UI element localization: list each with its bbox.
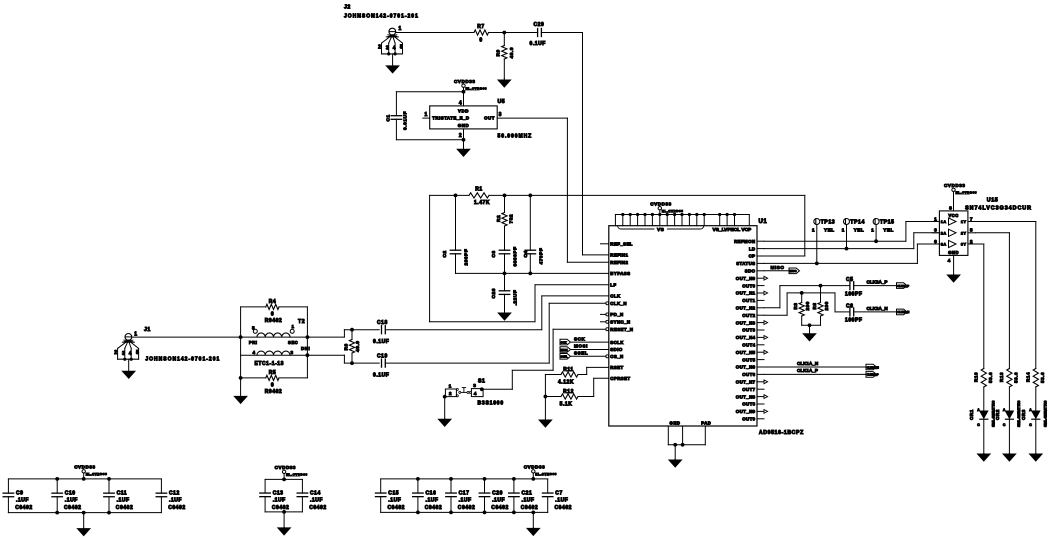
wire SSEL to CS_N <box>572 355 607 357</box>
svg-text:NL.CVDD33: NL.CVDD33 <box>86 472 108 476</box>
wire loop filter bottom rail to BYPASS <box>456 272 609 274</box>
power CVDD33 above U1 <box>658 207 661 210</box>
ground below bank <box>532 512 534 528</box>
svg-text:0.1UF: 0.1UF <box>373 339 389 345</box>
svg-text:C0402: C0402 <box>521 505 538 511</box>
capacitor C4 470PF <box>529 195 531 250</box>
svg-text:50.000MHZ: 50.000MHZ <box>498 134 533 140</box>
svg-text:53.6: 53.6 <box>1014 372 1019 383</box>
svg-text:.1UF: .1UF <box>16 498 29 504</box>
svg-text:C13: C13 <box>273 490 284 496</box>
svg-text:SYNC_N: SYNC_N <box>610 320 630 325</box>
pin U1 OUT4 <box>757 344 764 346</box>
wire LD to U15 2A <box>764 248 914 250</box>
node junction U5 VDD rail <box>462 90 466 94</box>
wire CR1 to ground <box>983 419 985 453</box>
svg-text:CVDD33: CVDD33 <box>275 465 296 470</box>
resistor R8 200 <box>820 286 822 303</box>
svg-text:OUT8: OUT8 <box>742 402 755 407</box>
svg-text:JOHNSON142-0701-201: JOHNSON142-0701-201 <box>145 356 220 362</box>
svg-text:C4: C4 <box>523 250 529 257</box>
wire C18 to CLK <box>385 329 542 331</box>
ground below U5 <box>463 140 465 150</box>
pin U1 SYNC_N <box>601 321 607 323</box>
oscillator U5 50.000MHZ <box>430 106 498 129</box>
svg-text:.1UF: .1UF <box>169 498 182 504</box>
diode CR2 SML-310MTT86 <box>1005 411 1013 418</box>
svg-text:OUT9: OUT9 <box>742 417 755 422</box>
connector J1 JOHNSON142-0701-201 <box>125 334 132 341</box>
svg-text:LF: LF <box>610 283 616 288</box>
svg-text:4: 4 <box>474 391 477 397</box>
node junction T2 right primary <box>306 335 310 339</box>
svg-text:OUT4: OUT4 <box>742 343 755 348</box>
svg-text:NL.CVDD33: NL.CVDD33 <box>286 472 308 476</box>
node junction R6 bottom <box>350 361 354 365</box>
svg-text:OUT_N8: OUT_N8 <box>736 394 756 399</box>
svg-text:R4: R4 <box>269 299 277 305</box>
svg-text:BYPASS: BYPASS <box>610 271 630 276</box>
capacitor C20 .1UF C0402 <box>484 479 486 493</box>
svg-text:1: 1 <box>871 228 874 233</box>
svg-text:MOSI: MOSI <box>561 348 568 352</box>
resistor R10 53.6 <box>981 369 986 388</box>
svg-text:0.01UF: 0.01UF <box>403 111 409 130</box>
pin U1 OUT_N5 <box>757 351 764 353</box>
pins U1 top VS pins <box>622 215 624 226</box>
svg-text:NL.CVDD33: NL.CVDD33 <box>662 209 684 213</box>
svg-text:C15: C15 <box>388 490 399 496</box>
svg-text:1: 1 <box>812 228 815 233</box>
wire CR3 to ground <box>1035 419 1037 453</box>
capacitor C6 100PF <box>849 308 851 316</box>
ground below bank <box>83 513 85 529</box>
svg-text:100PF: 100PF <box>845 291 862 297</box>
svg-text:100PF: 100PF <box>845 318 862 324</box>
svg-text:6800PF: 6800PF <box>513 246 519 266</box>
pin U1 OUT9 <box>757 418 764 420</box>
svg-text:5: 5 <box>970 228 973 234</box>
svg-text:A: A <box>977 408 980 412</box>
svg-text:CVDD33: CVDD33 <box>944 183 965 188</box>
wire C5 to CLK2A_P port <box>854 285 897 287</box>
svg-text:PAD: PAD <box>701 420 711 425</box>
resistor R9 49.9 <box>503 33 505 46</box>
wire CR2 to ground <box>1008 419 1010 453</box>
node junction bank ground <box>531 511 535 515</box>
svg-text:200: 200 <box>824 301 829 310</box>
svg-text:2: 2 <box>970 239 973 245</box>
svg-text:R13: R13 <box>999 372 1004 382</box>
wire T2 primary out jog <box>307 336 344 338</box>
testpoint TP15 YEL <box>873 219 879 225</box>
svg-text:A: A <box>1029 408 1032 412</box>
wire R11 to RSET <box>578 374 587 376</box>
wire T2 right vertical <box>306 307 308 378</box>
svg-text:GND: GND <box>670 420 681 425</box>
capacitor C15 .1UF C0402 <box>380 479 382 493</box>
resistor R4 0 R0402 <box>241 306 266 308</box>
buffer U15 gate 2A-2Y <box>949 229 957 236</box>
wire R12 to CPRSET <box>578 396 594 398</box>
svg-text:U5: U5 <box>498 99 506 105</box>
node junction C17 rails <box>449 477 453 481</box>
node junction R12 left <box>544 395 548 399</box>
resistor R2 732 <box>502 213 507 227</box>
svg-text:2: 2 <box>114 350 117 356</box>
svg-text:TP15: TP15 <box>880 219 895 225</box>
svg-text:OUT_N4: OUT_N4 <box>736 335 756 340</box>
svg-text:OUT3: OUT3 <box>742 328 755 333</box>
svg-text:STATUS: STATUS <box>736 261 755 266</box>
resistor R14 53.6 <box>1033 369 1038 388</box>
capacitor C12 .1UF C0402 <box>160 479 162 493</box>
svg-text:C10: C10 <box>65 491 76 497</box>
svg-text:MOSI: MOSI <box>574 344 588 349</box>
svg-text:C1: C1 <box>386 114 392 121</box>
svg-text:7: 7 <box>970 216 973 222</box>
wire J2 pin1 to R7 <box>396 32 474 34</box>
svg-text:CLK2A_P: CLK2A_P <box>897 284 909 288</box>
svg-text:CVDD33: CVDD33 <box>524 465 545 470</box>
svg-text:53.6: 53.6 <box>1040 372 1045 383</box>
node junction S1 pin3 <box>480 387 484 391</box>
node junction TP15 on REFMON <box>874 239 878 243</box>
svg-text:REF_SEL: REF_SEL <box>610 242 633 247</box>
svg-text:C16: C16 <box>426 490 437 496</box>
capacitor C19 0.1UF <box>381 359 383 367</box>
wire OUT2 to C6 <box>764 314 787 316</box>
net port CLK2A_P <box>897 283 908 289</box>
svg-text:OUT6: OUT6 <box>742 372 755 377</box>
svg-text:OUT_N9: OUT_N9 <box>736 409 756 414</box>
capacitor C29 0.1UF <box>537 29 539 37</box>
testpoint TP13 YEL <box>814 219 820 225</box>
svg-text:OUT0: OUT0 <box>742 283 755 288</box>
ground below U15 <box>953 274 955 277</box>
ground below U1 <box>674 445 676 460</box>
svg-text:6: 6 <box>934 239 937 245</box>
pin U1 OUT_N8 <box>757 396 764 398</box>
svg-text:SML-310MTT86: SML-310MTT86 <box>1016 400 1021 427</box>
capacitor C26 .22UF <box>504 273 506 290</box>
svg-text:2A: 2A <box>941 231 947 235</box>
svg-text:CLK_N: CLK_N <box>610 301 627 306</box>
diode CR1 SML-310MTT86 <box>980 411 988 418</box>
svg-text:REFIN1: REFIN1 <box>610 253 628 258</box>
svg-text:SCLK: SCLK <box>610 340 624 345</box>
wire OUT6 to CLK1A_P port <box>764 373 866 375</box>
wire R3 R8 ground rail <box>802 324 821 326</box>
node junction R9 tap <box>502 31 506 35</box>
svg-text:R11: R11 <box>563 367 574 373</box>
svg-text:OUT_N1: OUT_N1 <box>736 291 756 296</box>
svg-text:.1UF: .1UF <box>65 498 78 504</box>
svg-text:4: 4 <box>253 350 256 355</box>
svg-text:.1UF: .1UF <box>492 497 505 503</box>
wire T2 left vertical <box>240 307 242 378</box>
svg-text:CLK1A_P: CLK1A_P <box>867 373 879 377</box>
connector J2 JOHNSON142-0701-201 <box>389 28 396 35</box>
svg-text:CLK2A_P: CLK2A_P <box>867 280 888 285</box>
svg-text:REFIN2: REFIN2 <box>610 260 628 265</box>
node junction C11 rails <box>107 477 111 481</box>
wire loop filter left leg to LF pin <box>429 195 431 321</box>
svg-text:SSEL: SSEL <box>561 355 568 359</box>
svg-text:CLK: CLK <box>610 294 621 299</box>
wire SCK to SCLK <box>572 341 609 343</box>
capacitor C17 .1UF C0402 <box>450 479 452 493</box>
node junction TP13 on STATUS <box>815 262 819 266</box>
svg-text:470PF: 470PF <box>538 248 544 265</box>
IC U1 AD9516-1BCPZ body <box>609 226 757 426</box>
svg-text:5: 5 <box>136 350 139 356</box>
svg-text:C0402: C0402 <box>555 505 572 511</box>
svg-text:1.47K: 1.47K <box>474 200 490 206</box>
svg-text:3: 3 <box>934 228 937 234</box>
net port CLK2A_N <box>897 309 908 315</box>
net port SSEL <box>560 354 571 360</box>
wire R10 to CR1 <box>983 387 985 411</box>
ground below R11 R12 <box>544 419 546 422</box>
resistor R7 <box>474 30 489 35</box>
node junction bank ground <box>82 511 86 515</box>
svg-text:CLK1A_P: CLK1A_P <box>797 368 818 373</box>
svg-text:5: 5 <box>252 326 255 331</box>
wire R7 to C29 <box>489 32 538 34</box>
svg-text:49.9: 49.9 <box>355 340 361 352</box>
ground below CR3 <box>1035 453 1037 456</box>
svg-text:1: 1 <box>134 331 137 337</box>
buffer U15 gate 1A-1Y <box>949 218 957 225</box>
svg-text:C: C <box>1029 423 1032 427</box>
svg-text:5.1K: 5.1K <box>560 402 573 408</box>
net port SCK <box>560 339 571 345</box>
svg-text:OUT5: OUT5 <box>742 357 755 362</box>
svg-text:JOHNSON142-0701-201: JOHNSON142-0701-201 <box>344 14 419 20</box>
svg-text:J2: J2 <box>344 5 351 11</box>
wire bank rail top C9-C12 <box>8 478 161 480</box>
pin U1 OUT7 <box>757 388 764 390</box>
svg-text:CLK1A_N: CLK1A_N <box>797 361 819 366</box>
wire bank rail top C13-C14 <box>265 478 302 480</box>
svg-text:CP: CP <box>749 254 756 259</box>
svg-text:SCK: SCK <box>574 336 585 341</box>
svg-text:1: 1 <box>399 26 402 32</box>
net port CLK1A_N <box>866 364 877 370</box>
svg-text:NL.CVDD33: NL.CVDD33 <box>956 190 978 194</box>
svg-text:SDO: SDO <box>745 269 756 274</box>
svg-text:YEL: YEL <box>883 228 894 233</box>
svg-text:CS_N: CS_N <box>610 354 623 359</box>
svg-text:C12: C12 <box>169 491 180 497</box>
svg-text:OUT7: OUT7 <box>742 387 755 392</box>
resistor R12 5.1K <box>545 396 561 398</box>
svg-text:CPRSET: CPRSET <box>610 376 630 381</box>
switch S1 B3S1000 <box>445 389 456 397</box>
svg-text:R10: R10 <box>974 372 979 382</box>
capacitor C3 6800PF <box>504 226 506 250</box>
capacitor C21 .1UF C0402 <box>513 479 515 493</box>
svg-text:1: 1 <box>934 216 937 222</box>
svg-text:C0402: C0402 <box>458 505 475 511</box>
node junction C16 rails <box>416 477 420 481</box>
svg-text:R0402: R0402 <box>265 389 282 395</box>
wire bank rail top C15-C7 <box>381 478 548 480</box>
svg-text:C0402: C0402 <box>15 505 32 511</box>
svg-text:C26: C26 <box>491 288 497 298</box>
wire CP to loop filter rail <box>804 195 806 256</box>
svg-text:200: 200 <box>805 301 810 310</box>
pin U1 OUT_N1 <box>757 292 764 294</box>
svg-text:VDD: VDD <box>458 108 469 113</box>
ground below R9 <box>503 79 505 81</box>
svg-text:OUT_N5: OUT_N5 <box>736 350 756 355</box>
svg-text:C0402: C0402 <box>116 505 133 511</box>
resistor R1 1.47K <box>469 193 489 198</box>
wire bank rail bottom C9-C12 <box>8 512 161 514</box>
svg-text:732: 732 <box>509 214 515 224</box>
resistor R6 49.9 <box>351 330 353 340</box>
pin U1 RESET_N <box>606 328 609 331</box>
wire OUT_N6 to CLK1A_N port <box>764 366 866 368</box>
svg-text:3: 3 <box>122 351 125 357</box>
svg-text:.1UF: .1UF <box>273 497 286 503</box>
pin U15 GND stem <box>953 255 955 274</box>
svg-text:CR2: CR2 <box>995 409 1000 420</box>
wire C19 to CLK_N <box>385 362 549 364</box>
svg-text:C9: C9 <box>16 491 24 497</box>
node junction T2 left R5 <box>239 376 243 380</box>
resistor R11 4.12K <box>545 374 561 376</box>
wire S1 to RESET_N <box>482 388 513 390</box>
svg-text:200PF: 200PF <box>464 249 470 266</box>
node junctions loop filter top rail <box>454 194 458 198</box>
wire U5 OUT to REFIN2 <box>497 117 567 119</box>
net port MOSI <box>560 347 571 353</box>
svg-text:1: 1 <box>842 228 845 233</box>
svg-text:RSET: RSET <box>610 365 623 370</box>
svg-text:CLK2A_N: CLK2A_N <box>897 310 909 314</box>
wire U15 output to R14 <box>975 221 1035 223</box>
pin U1 OUT_N9 <box>757 410 764 412</box>
pin U1 OUT_N3 <box>757 322 764 324</box>
wire R13 to CR2 <box>1008 387 1010 411</box>
pin U1 OUT_N7 <box>757 381 764 383</box>
svg-text:C11: C11 <box>117 491 128 497</box>
capacitor C7 .1UF C0402 <box>547 479 549 493</box>
wire J1 to transformer <box>132 336 241 338</box>
svg-text:2: 2 <box>378 45 381 51</box>
svg-text:R9: R9 <box>495 49 501 56</box>
svg-text:C0402: C0402 <box>168 505 185 511</box>
svg-text:R3: R3 <box>793 303 798 310</box>
wire OUT_N2 to C5 <box>764 307 780 309</box>
wire R14 to CR3 <box>1035 387 1037 411</box>
svg-text:.22UF: .22UF <box>513 290 519 306</box>
svg-text:SEC: SEC <box>288 340 298 345</box>
pin U1 OUT3 <box>757 329 764 331</box>
svg-text:C0402: C0402 <box>491 505 508 511</box>
svg-text:C21: C21 <box>522 490 533 496</box>
capacitor C2 200PF <box>455 195 457 250</box>
svg-text:C: C <box>1003 423 1006 427</box>
pin U1 OUT_N4 <box>757 336 764 338</box>
node junction R6 top <box>350 328 354 332</box>
wire U5 top rail <box>396 91 463 93</box>
svg-text:CLK1A_N: CLK1A_N <box>867 365 879 369</box>
resistor R3 200 <box>801 293 803 303</box>
svg-text:C2: C2 <box>442 250 448 257</box>
ground below C26 <box>504 312 506 314</box>
svg-text:PD_N: PD_N <box>610 312 623 317</box>
power CVDD33 bank tap <box>531 477 535 481</box>
svg-text:C5: C5 <box>846 277 854 283</box>
capacitor C16 .1UF C0402 <box>417 479 419 493</box>
pin U1 OUT_N2 <box>757 307 764 309</box>
svg-text:2Y: 2Y <box>961 231 967 235</box>
node junction C21 rails <box>512 477 516 481</box>
svg-text:OUT_N0: OUT_N0 <box>736 276 756 281</box>
power CVDD33 bank tap <box>282 478 286 482</box>
svg-text:R8: R8 <box>812 303 817 310</box>
svg-text:TP13: TP13 <box>821 219 836 225</box>
svg-text:SML-310MTT86: SML-310MTT86 <box>1042 400 1047 427</box>
svg-text:U15: U15 <box>987 198 999 204</box>
svg-text:C17: C17 <box>459 490 470 496</box>
net port CLK1A_P <box>866 372 877 378</box>
svg-text:4: 4 <box>459 100 462 106</box>
svg-text:0: 0 <box>479 38 482 44</box>
wire REFMON to U15 1A <box>764 240 906 242</box>
pin U1 OUT_N6 <box>757 366 764 368</box>
pin U1 CP <box>757 255 764 257</box>
capacitor C9 .1UF C0402 <box>7 479 9 493</box>
node junction TP14 on LD <box>845 247 849 251</box>
pin U1 PD_N <box>601 313 607 315</box>
svg-text:C14: C14 <box>310 490 321 496</box>
svg-text:CR1: CR1 <box>969 409 974 420</box>
svg-text:.1UF: .1UF <box>426 497 439 503</box>
svg-text:1Y: 1Y <box>961 220 967 224</box>
svg-text:U1: U1 <box>759 219 768 225</box>
svg-text:4: 4 <box>129 351 132 357</box>
pin U1 SDO <box>757 270 764 272</box>
capacitor C10 .1UF C0402 <box>56 479 58 493</box>
power CVDD33 above U15 <box>952 188 955 191</box>
svg-text:C19: C19 <box>377 353 388 359</box>
svg-text:T2: T2 <box>298 319 305 325</box>
wire U1 VS power rail <box>615 214 749 216</box>
svg-text:VS_LVPECL VCP: VS_LVPECL VCP <box>713 227 753 233</box>
svg-text:C20: C20 <box>492 490 503 496</box>
svg-text:SN74LVC3G34DCUR: SN74LVC3G34DCUR <box>965 205 1032 211</box>
svg-text:3: 3 <box>499 112 502 118</box>
pin U5 pin1 stub <box>423 117 430 119</box>
svg-text:A: A <box>1003 408 1006 412</box>
svg-text:OUT_N3: OUT_N3 <box>736 320 756 325</box>
ground below bank <box>283 512 285 528</box>
svg-text:R14: R14 <box>1026 372 1031 382</box>
capacitor C14 .1UF C0402 <box>301 479 303 493</box>
ground below T2 left leg <box>240 378 242 397</box>
svg-text:OUT_N2: OUT_N2 <box>736 306 756 311</box>
svg-text:R5: R5 <box>269 370 277 376</box>
svg-text:3: 3 <box>473 383 476 389</box>
wire U15 output to R13 <box>975 232 1009 234</box>
svg-text:TRISTATE_E_D: TRISTATE_E_D <box>432 116 469 121</box>
node junction T2 left primary <box>239 335 243 339</box>
